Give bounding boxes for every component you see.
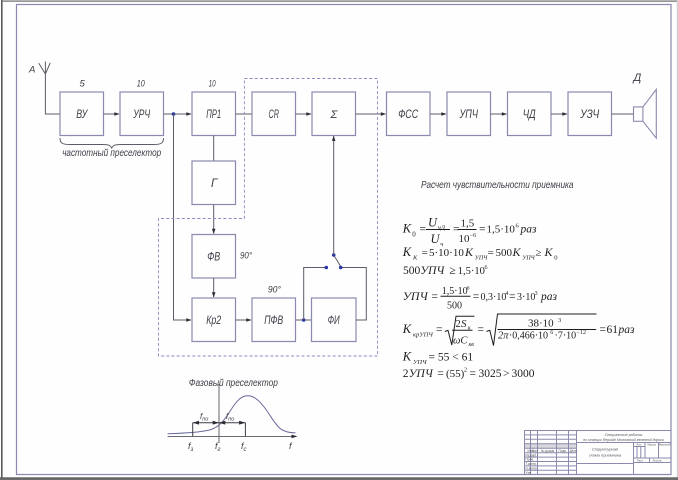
svg-text:Σ: Σ <box>330 109 339 121</box>
svg-text:=: = <box>470 368 477 380</box>
svg-text:1,5·10: 1,5·10 <box>458 266 485 277</box>
wire antenna to ВУ <box>45 74 60 114</box>
svg-text:U: U <box>431 232 441 246</box>
svg-text:≥: ≥ <box>536 247 542 259</box>
wire switch to Σ <box>332 136 336 255</box>
block ПФВ <box>252 298 296 342</box>
svg-text:≥: ≥ <box>449 265 455 277</box>
svg-text:Подп.: Подп. <box>559 449 568 453</box>
svg-text:Кр2: Кр2 <box>206 315 221 327</box>
scan edge right <box>677 0 678 480</box>
svg-text:S: S <box>461 318 467 330</box>
wire CR-Σ <box>296 112 312 116</box>
svg-text:раз: раз <box>618 324 636 336</box>
svg-text:=: = <box>420 224 427 236</box>
graph vertical fг line <box>218 384 220 443</box>
svg-text:=: = <box>436 324 443 336</box>
svg-text:61: 61 <box>607 324 619 336</box>
svg-text:крУПЧ: крУПЧ <box>413 332 433 339</box>
svg-text:K: K <box>402 322 412 336</box>
block ПР1 <box>192 92 236 136</box>
svg-text:=: = <box>437 368 444 380</box>
svg-text:U: U <box>428 216 438 230</box>
svg-text:УПЧ: УПЧ <box>409 368 434 380</box>
svg-text:4: 4 <box>505 291 508 297</box>
svg-text:=: = <box>479 224 486 236</box>
svg-text:ФИ: ФИ <box>328 315 341 327</box>
wire Σ-ФСС <box>356 112 387 116</box>
svg-text:Специальные работы: Специальные работы <box>605 433 643 437</box>
svg-text:10: 10 <box>209 79 216 90</box>
svg-text:Расчет чувствительности приемн: Расчет чувствительности приемника <box>421 179 574 191</box>
svg-text:K: K <box>402 222 412 236</box>
svg-text:500: 500 <box>496 247 513 259</box>
wire ПФВ-ФИ <box>296 319 312 321</box>
switch right contact node <box>339 266 343 270</box>
svg-text:>: > <box>503 368 510 380</box>
svg-text:УЗЧ: УЗЧ <box>579 109 599 121</box>
brace частотный преселектор <box>60 138 164 148</box>
svg-text:−12: −12 <box>577 330 586 336</box>
svg-text:90°: 90° <box>268 285 281 295</box>
svg-text:K: K <box>512 245 522 259</box>
svg-text:2: 2 <box>456 319 461 330</box>
block УПЧ <box>447 92 491 136</box>
svg-text:6: 6 <box>550 330 553 336</box>
svg-text:частотный преселектор: частотный преселектор <box>62 148 161 159</box>
svg-text:К: К <box>412 255 418 262</box>
svg-text:Утв.: Утв. <box>526 471 532 475</box>
switch pole node <box>332 253 336 257</box>
svg-text:Структурная: Структурная <box>592 447 619 452</box>
svg-text:Лист: Лист <box>637 459 644 463</box>
wire ФИ right up to switch right contact <box>342 268 366 321</box>
block CR <box>252 92 296 136</box>
scan edge top <box>1 1 677 2</box>
svg-text:3·10: 3·10 <box>517 292 535 303</box>
svg-text:=: = <box>473 291 480 303</box>
svg-text:90°: 90° <box>240 251 252 261</box>
graph curve <box>168 396 296 434</box>
dashed selector region <box>159 79 378 357</box>
svg-text:УРЧ: УРЧ <box>132 109 150 121</box>
scan edge left <box>1 0 3 478</box>
switch left contact node <box>325 266 329 270</box>
formula УПЧ <box>403 285 558 311</box>
svg-text:Пров.: Пров. <box>526 458 535 462</box>
svg-text:ВУ: ВУ <box>76 109 88 121</box>
svg-text:раз: раз <box>540 291 558 303</box>
antenna <box>39 62 50 75</box>
wire УПЧ-ЧД <box>491 112 508 116</box>
svg-text:K: K <box>402 350 412 364</box>
svg-text:=: = <box>509 291 516 303</box>
svg-text:по станции Republic Московской: по станции Republic Московской железной … <box>583 438 664 442</box>
wire ФСС-УПЧ <box>430 112 447 116</box>
svg-text:5·10·10: 5·10·10 <box>429 247 464 259</box>
block УЗЧ <box>568 92 612 136</box>
svg-text:·0,466·10: ·0,466·10 <box>509 331 548 342</box>
scan edge bottom strip <box>0 477 678 480</box>
svg-text:500: 500 <box>403 265 421 277</box>
dimension arrow fг-fс <box>219 421 245 425</box>
wire junction down to Кр2 <box>174 114 192 322</box>
block ФВ <box>192 235 236 279</box>
switch blade <box>334 255 341 267</box>
block ФИ <box>312 298 357 342</box>
svg-text:(55): (55) <box>446 368 465 380</box>
block Σ <box>312 92 356 136</box>
svg-text:Н.контр.: Н.контр. <box>526 467 538 471</box>
svg-text:3: 3 <box>535 291 538 297</box>
svg-text:УПЧ: УПЧ <box>459 109 478 121</box>
graph tick fз <box>192 423 194 437</box>
wire УЗЧ-speaker <box>612 113 634 115</box>
dimension arrow fз-fг <box>193 421 219 425</box>
svg-text:Т.контр.: Т.контр. <box>526 462 538 466</box>
svg-text:=: = <box>488 247 494 259</box>
block Кр2 <box>192 298 236 342</box>
formula KУПЧ <box>402 350 474 367</box>
wire УРЧ-ПР1 <box>164 112 192 116</box>
speaker <box>634 89 657 138</box>
svg-text:=: = <box>432 291 439 303</box>
svg-text:2π: 2π <box>498 331 509 342</box>
node junction after УРЧ <box>172 112 176 116</box>
svg-text:0: 0 <box>554 255 557 262</box>
graph tick fс <box>244 423 246 437</box>
svg-text:2: 2 <box>464 368 467 374</box>
svg-text:10: 10 <box>137 79 146 90</box>
svg-text:−6: −6 <box>470 233 476 239</box>
svg-text:УПЧ: УПЧ <box>522 256 535 262</box>
svg-text:Разраб.: Разраб. <box>526 453 538 457</box>
svg-text:=: = <box>600 324 607 336</box>
svg-text:K: K <box>544 245 554 259</box>
svg-text:схема приемника: схема приемника <box>589 453 622 458</box>
svg-text:=: = <box>478 324 485 336</box>
wire ВУ-УРЧ <box>104 112 120 116</box>
svg-text:Г: Г <box>211 178 218 190</box>
svg-text:0: 0 <box>412 231 416 239</box>
wire Кр2-ПФВ <box>236 318 252 322</box>
svg-text:УПЧ: УПЧ <box>420 265 445 277</box>
svg-text:чД: чД <box>438 225 446 232</box>
title block <box>525 431 672 475</box>
wire junction up to switch left contact <box>304 268 325 321</box>
svg-text:3025: 3025 <box>479 368 502 380</box>
svg-text:ФВ: ФВ <box>207 252 220 264</box>
svg-text:1,5: 1,5 <box>461 218 475 230</box>
wire ФВ-Кр2 <box>212 278 216 298</box>
block ФСС <box>387 92 431 136</box>
svg-text:=: = <box>422 247 428 259</box>
svg-text:Листов: Листов <box>652 459 662 463</box>
svg-text:Масса: Масса <box>648 443 657 447</box>
wire ЧД-УЗЧ <box>551 112 568 116</box>
wire Г-ФВ <box>212 205 216 235</box>
svg-text:1,5·10: 1,5·10 <box>487 224 516 236</box>
svg-text:Лист: Лист <box>532 449 539 453</box>
svg-text:ЧД: ЧД <box>523 109 536 121</box>
svg-text:1,5·10: 1,5·10 <box>442 286 468 297</box>
svg-text:CR: CR <box>269 109 280 121</box>
wire ПР1-Г <box>213 136 215 162</box>
svg-text:Д: Д <box>632 72 642 84</box>
formula K0 <box>402 216 537 249</box>
block ВУ <box>60 92 104 136</box>
svg-text:3000: 3000 <box>512 368 535 380</box>
svg-text:0,3·10: 0,3·10 <box>481 292 507 303</box>
svg-text:УПЧ: УПЧ <box>403 289 429 303</box>
svg-text:6: 6 <box>467 285 470 291</box>
svg-text:Дата: Дата <box>570 449 577 453</box>
svg-text:Масштаб: Масштаб <box>659 443 671 447</box>
formula 500УПЧ <box>403 265 488 277</box>
svg-text:·7·10: ·7·10 <box>555 331 577 342</box>
graph axis <box>168 435 296 437</box>
svg-text:раз: раз <box>520 224 538 236</box>
svg-text:= 55 < 61: = 55 < 61 <box>429 352 474 364</box>
svg-text:УПЧ: УПЧ <box>475 256 488 262</box>
formula KкрУПЧ <box>402 314 635 348</box>
wire ПР1-CR <box>236 113 253 115</box>
svg-text:Фазовый преселектор: Фазовый преселектор <box>189 378 278 389</box>
svg-text:3: 3 <box>558 317 561 324</box>
svg-text:500: 500 <box>447 300 462 311</box>
svg-text:кв: кв <box>469 342 475 348</box>
svg-text:ПФВ: ПФВ <box>264 315 283 327</box>
svg-text:№ докум.: № докум. <box>541 449 555 453</box>
node junction ПФВ-ФИ <box>302 318 306 322</box>
block УРЧ <box>120 92 164 136</box>
block Г <box>192 161 236 205</box>
svg-text:ФСС: ФСС <box>398 109 419 121</box>
svg-text:38·10: 38·10 <box>528 318 554 330</box>
svg-text:10: 10 <box>459 233 471 245</box>
svg-text:А: А <box>28 65 35 76</box>
svg-text:K: K <box>402 245 412 259</box>
formula 2УПЧ <box>403 368 535 381</box>
block ЧД <box>508 92 552 136</box>
svg-text:K: K <box>464 245 474 259</box>
svg-text:ПР1: ПР1 <box>206 109 221 121</box>
svg-text:УПЧ: УПЧ <box>413 359 427 366</box>
svg-text:5: 5 <box>80 79 86 90</box>
svg-text:Лит.: Лит. <box>636 443 641 447</box>
svg-text:6: 6 <box>485 265 488 271</box>
svg-text:ωC: ωC <box>453 336 468 347</box>
formula KК <box>402 245 558 262</box>
